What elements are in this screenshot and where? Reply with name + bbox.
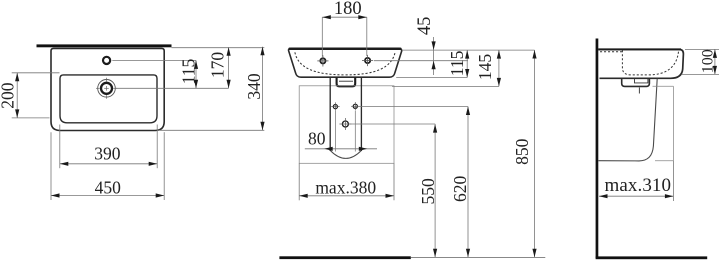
wall line (side view): [596, 39, 599, 259]
dim line 450: [51, 195, 164, 197]
dim line 45: [433, 37, 435, 75]
svg-text:340: 340: [244, 73, 264, 100]
dim line 550: [434, 124, 436, 257]
mounting hole right (front view): [365, 58, 370, 63]
dim line 100: [714, 49, 716, 74]
dim line 115 (top view): [195, 60, 197, 88]
extension lines 180: [321, 17, 323, 56]
shroud left edge (front view): [329, 78, 331, 151]
overflow inner (side view): [635, 79, 648, 83]
svg-text:max.380: max.380: [315, 177, 376, 197]
extension line drain: [116, 87, 229, 89]
dim line 170 (top view): [228, 47, 230, 88]
callout line shroud holes: [359, 105, 468, 107]
callout line mounting holes: [374, 60, 468, 62]
svg-text:620: 620: [450, 176, 470, 203]
faucet hole (top view): [103, 57, 110, 64]
svg-text:200: 200: [0, 82, 17, 109]
extension lines 80 (from shroud holes): [334, 111, 336, 152]
drain ring (top view): [101, 83, 112, 94]
clearance box top (side view): [653, 85, 674, 87]
shroud hole right (front view): [353, 104, 357, 108]
svg-text:max.310: max.310: [604, 175, 671, 196]
extension line faucet hole: [112, 59, 196, 61]
svg-text:80: 80: [308, 128, 326, 148]
extension lines 390: [59, 125, 61, 169]
callout line basin top: [403, 49, 535, 51]
basin inner bowl (top view): [60, 75, 157, 123]
callout line overflow bottom: [392, 85, 499, 87]
hidden rim arc (front view, dashed): [295, 52, 395, 75]
basin top edge thick (side view): [598, 48, 681, 50]
drain pipe stub (side view): [638, 88, 640, 94]
basin profile (side view): [598, 49, 683, 78]
svg-text:45: 45: [415, 17, 435, 36]
overflow box (side view): [622, 78, 650, 86]
svg-text:145: 145: [475, 54, 495, 81]
clearance box bottom (side view): [655, 160, 673, 162]
overflow inner line: [339, 80, 353, 82]
extension lines 200: [12, 72, 60, 74]
clearance box right (side view): [672, 86, 674, 160]
dim line 620: [467, 107, 469, 258]
extension lines 450: [50, 132, 52, 200]
svg-text:850: 850: [512, 138, 532, 165]
shroud hole left (front view): [333, 105, 337, 109]
floor line thick (front view): [279, 256, 410, 259]
basin outline (front view): [289, 48, 402, 77]
mounting hole left (front view): [320, 58, 325, 63]
drain outer circle (top view): [98, 80, 116, 98]
dim line 115 (front view): [466, 50, 468, 77]
dim line 145: [498, 50, 500, 86]
svg-text:550: 550: [418, 178, 438, 205]
extension line max310: [672, 160, 674, 201]
dim line 340 (top view): [262, 47, 264, 131]
svg-text:390: 390: [94, 144, 121, 164]
dim line 200 (top view): [16, 73, 18, 118]
svg-text:170: 170: [208, 52, 228, 79]
dim line 180: [322, 16, 367, 18]
extension line basin bottom (to 340): [157, 129, 264, 131]
wall bar (top view): [37, 44, 172, 47]
callout line basin bottom: [396, 77, 467, 79]
basin outer rim (top view): [51, 48, 164, 130]
shroud right edge (front view): [360, 78, 362, 151]
hidden rim dashed segment near wall (side view): [600, 51, 623, 53]
dim line max310: [599, 195, 673, 197]
drain hole (front view): [342, 121, 348, 127]
hidden bowl (side view, dashed): [622, 50, 678, 75]
svg-text:100: 100: [700, 49, 717, 73]
extension line top (bar to 340): [172, 47, 265, 49]
svg-text:115: 115: [447, 50, 467, 76]
overflow box (front view): [337, 78, 356, 87]
dim line 80: [305, 148, 377, 150]
drain center marks: [96, 78, 117, 99]
shroud profile (side view): [598, 79, 657, 161]
dim line max380: [299, 195, 394, 197]
callout line drain hole: [349, 123, 435, 125]
basin top edge thick (front view): [289, 48, 401, 50]
extension lines 100: [685, 48, 719, 50]
svg-text:115: 115: [179, 58, 199, 84]
floor line thin (front view): [411, 256, 546, 258]
floor line (side view): [596, 256, 708, 259]
shroud bottom arc (front view): [330, 151, 361, 159]
dim line 850: [534, 50, 536, 257]
svg-text:450: 450: [95, 177, 122, 197]
dim line 390: [60, 163, 157, 165]
clearance box max380 (front view): [299, 86, 394, 164]
svg-text:180: 180: [334, 0, 362, 19]
extension lines max380: [298, 163, 300, 200]
